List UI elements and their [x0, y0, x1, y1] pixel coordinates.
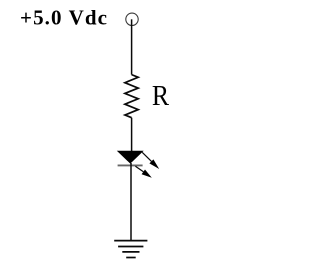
wire: resistor to LED — [131, 118, 133, 152]
LED emission arrow 2 — [135, 166, 151, 178]
wire: terminal to resistor — [131, 19, 133, 74]
terminal circle — [126, 13, 138, 25]
ground bar 2 — [118, 246, 143, 248]
resistor R1 zigzag — [125, 75, 138, 118]
wire: LED to ground — [130, 163, 132, 240]
LED D1 anode triangle — [118, 151, 143, 163]
LED cathode bar — [118, 164, 143, 166]
svg-text:R: R — [152, 81, 170, 112]
svg-text:+5.0 Vdc: +5.0 Vdc — [20, 6, 108, 30]
LED emission arrow 1 — [142, 152, 159, 169]
ground bar 3 — [122, 251, 139, 253]
ground bar 1 — [114, 240, 147, 242]
ground bar 4 — [126, 257, 136, 259]
